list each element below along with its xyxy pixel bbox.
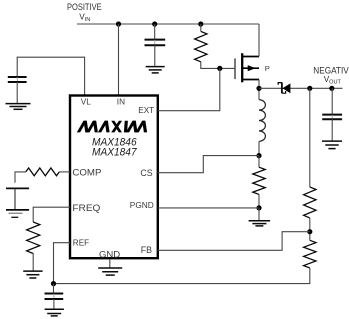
svg-text:IN: IN	[117, 97, 125, 106]
resistor R1 gate pull-up top lead	[200, 24, 202, 31]
wire top VIN rail	[77, 23, 259, 25]
wire R2 to ground	[258, 208, 260, 221]
wire L1 bottom lead	[258, 141, 260, 155]
node junction dot VIN/IN	[116, 21, 121, 26]
ground below GND pin	[98, 267, 122, 269]
wire EXT to gate	[158, 68, 220, 110]
capacitor C3 (output)	[322, 114, 342, 116]
resistor R5 COMP series	[59, 171, 70, 173]
transistor Q1 channel bar	[241, 53, 243, 82]
node junction dot L1/CS/R2	[256, 153, 261, 158]
svg-text:FB: FB	[141, 245, 152, 255]
wire Q1 source to VIN rail	[258, 24, 260, 57]
transistor Q1 source stub	[242, 56, 259, 58]
ground below C2	[6, 103, 31, 105]
node junction dot VOUT/divider	[307, 86, 312, 91]
node junction dot gate/EXT	[217, 66, 222, 71]
ground below C3	[322, 140, 342, 142]
transistor Q1 body stub with arrow	[242, 67, 259, 69]
transistor Q1 P-channel MOSFET gate bar	[234, 58, 236, 79]
node junction dot VIN/R1	[198, 21, 203, 26]
wire C4 to ground	[14, 188, 16, 210]
node junction dot VOUT/C3	[329, 86, 334, 91]
ground below R2	[249, 220, 271, 222]
node junction dot REF	[51, 281, 56, 286]
resistor R1	[195, 31, 207, 61]
diode D1 triangle	[283, 83, 291, 93]
op IC U1 MAX1846/MAX1847 box	[70, 96, 158, 259]
wire C2 bottom lead	[16, 82, 18, 104]
wire C1 bottom lead	[154, 45, 156, 66]
wire FB pin to divider	[158, 232, 310, 251]
ground below C4	[6, 209, 29, 211]
svg-text:NEGATIVE: NEGATIVE	[313, 66, 349, 76]
wire R1 to gate	[201, 62, 235, 69]
resistor R4 feedback lower	[304, 240, 316, 268]
resistor R2 current sense	[258, 156, 260, 168]
wire R5 to C4	[15, 172, 26, 183]
wire R4 bottom to REF rail	[54, 268, 310, 284]
svg-text:GND: GND	[99, 249, 121, 259]
ground below R6	[23, 270, 42, 272]
wire IN pin drop	[118, 24, 120, 95]
node junction dot VIN/C1	[152, 21, 157, 26]
capacitor C2 (VL bypass)	[8, 76, 27, 78]
MAXIM logo	[77, 121, 87, 133]
transistor Q1 drain stub	[242, 79, 259, 81]
wire GND pin down	[109, 259, 111, 268]
wire diode rail to VOUT	[259, 87, 343, 89]
svg-text:CS: CS	[140, 168, 152, 178]
node junction dot FB divider	[307, 229, 312, 234]
wire C3 top lead	[331, 88, 333, 114]
capacitor C4 COMP (plate)	[6, 187, 29, 189]
svg-text:POSITIVE: POSITIVE	[67, 2, 102, 12]
ground below C1	[146, 66, 165, 68]
capacitor C5 REF bypass	[53, 284, 55, 294]
svg-text:MAX1847: MAX1847	[92, 147, 138, 159]
svg-text:VL: VL	[81, 97, 91, 106]
svg-text:COMP: COMP	[72, 167, 101, 177]
svg-text:FREQ: FREQ	[72, 203, 100, 213]
svg-text:EXT: EXT	[138, 106, 154, 115]
diode D1 Schottky cathode bar	[281, 83, 283, 94]
node junction dot R2/PGND	[256, 205, 261, 210]
wire REF pin down	[54, 243, 71, 284]
inductor L1	[259, 100, 265, 142]
capacitor C1 (input bypass)	[145, 39, 166, 41]
wire PGND pin to R2	[158, 207, 259, 209]
node junction dot drain/diode	[256, 86, 261, 91]
svg-text:PGND: PGND	[130, 200, 154, 210]
svg-text:REF: REF	[73, 238, 89, 247]
wire VL branch	[17, 57, 84, 95]
wire negative rail down	[309, 88, 311, 187]
resistor R3 feedback upper	[304, 187, 316, 218]
wire C1 top lead	[154, 24, 156, 40]
wire C3 bottom lead	[331, 119, 333, 141]
svg-text:P: P	[265, 64, 270, 73]
wire CS pin to L1 node	[158, 156, 259, 173]
resistor R6 FREQ set	[33, 207, 70, 222]
wire Q1 drain down	[258, 80, 260, 100]
ground below C5	[45, 308, 64, 310]
